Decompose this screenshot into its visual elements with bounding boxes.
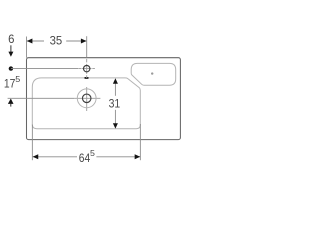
dimension 35: right arrowhead [81,39,87,44]
dimension 64.5: line left part [33,156,77,158]
drain dimension line [8,97,75,99]
svg-text:5: 5 [90,149,95,158]
dimension 35: left arrowhead [27,39,33,44]
deck pre-punched tap hole dot [151,72,153,74]
tap hole centre line vertical (dash-dot) [86,59,88,78]
dimension 35: left extension line [26,37,28,58]
washbasin outer rim [27,58,181,140]
dimension 64.5: left extension line [31,125,33,161]
drain crosshair horizontal [74,97,100,99]
dimension 31: down arrowhead [113,123,118,128]
tap hole [84,65,90,71]
dimension 35: line left part [27,40,44,42]
svg-text:64: 64 [79,151,91,165]
svg-text:17: 17 [4,76,16,90]
tap hole dimension line [11,68,78,70]
bowl outline [32,78,140,129]
shelf deck outline [131,63,176,85]
dimension 17.5: up arrowhead at drain line [8,99,14,104]
dimension 31: line upper part [114,83,116,95]
dimension 17.5: arrow tail [10,104,12,107]
dimension 31: line lower part [114,110,116,124]
drain inner circle [82,94,91,103]
dimension 6: arrow tail [10,45,12,52]
dimension 35: line right part [66,40,86,42]
svg-text:6: 6 [8,32,15,46]
tap hole crosshair horizontal [78,68,95,70]
svg-text:31: 31 [109,97,121,111]
dimension 64.5: line right part [96,156,140,158]
dimension 64.5: right extension line [139,124,141,160]
dimension 31: up arrowhead [113,78,118,83]
dimension 64.5: left arrowhead [33,154,39,159]
drain outer circle [77,89,96,108]
overflow slot [84,77,88,79]
dimension 6: down arrowhead [8,52,13,57]
dimension 6/17.5: tap line dot [9,66,13,70]
svg-text:35: 35 [50,33,63,47]
dimension 35: right extension line [86,36,88,58]
svg-text:5: 5 [15,75,20,84]
drain crosshair vertical [86,87,88,111]
dimension 64.5: right arrowhead [135,154,141,159]
